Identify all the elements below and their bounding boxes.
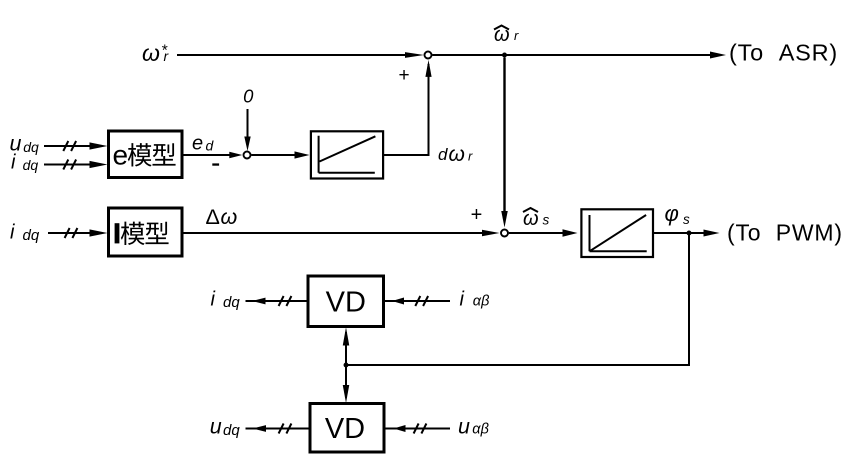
block e-model	[109, 131, 183, 178]
svg-text:ω: ω	[494, 24, 510, 46]
svg-text:ω: ω	[221, 205, 238, 229]
svg-text:φ: φ	[665, 201, 679, 226]
svg-text:VD: VD	[325, 413, 365, 445]
junction dot phi_s	[687, 231, 692, 236]
node omega_r_hat junction dot	[502, 53, 507, 58]
svg-text:i: i	[10, 222, 15, 244]
label omega_s_hat	[523, 208, 550, 230]
svg-text:s: s	[683, 212, 690, 227]
svg-text:s: s	[543, 213, 550, 228]
svg-text:αβ: αβ	[472, 422, 489, 438]
feedback wire phi_s down and left	[346, 233, 689, 365]
wire i_dq into e-model with bus slashes	[44, 160, 108, 170]
svg-text:u: u	[210, 414, 222, 438]
block F1 ramp/integrator	[311, 131, 383, 178]
wire u_alphabeta into VD2 with bus slashes	[384, 424, 450, 434]
svg-text:ω: ω	[523, 208, 539, 230]
svg-text:dq: dq	[223, 422, 240, 439]
wire I-model to summing junction S3	[182, 230, 500, 236]
svg-text:e: e	[192, 133, 203, 155]
node omega_r* label	[142, 40, 170, 66]
junction dot feedback split	[344, 363, 349, 368]
svg-text:(To ASR): (To ASR)	[729, 40, 838, 66]
minus sign at S2	[212, 163, 219, 165]
svg-text:Δ: Δ	[206, 205, 220, 229]
label d omega_r	[438, 143, 473, 166]
svg-text:i: i	[11, 152, 16, 174]
summing junction S3	[501, 230, 508, 237]
block F2 ramp/integrator	[581, 209, 653, 257]
wire VD2 output left to u_dq with bus slashes	[246, 424, 311, 434]
svg-text:ω: ω	[449, 143, 465, 166]
label e_d	[192, 133, 215, 155]
svg-text:i: i	[460, 289, 465, 311]
summing junction S1	[425, 52, 432, 59]
svg-text:αβ: αβ	[473, 293, 490, 309]
svg-text:+: +	[398, 65, 409, 86]
wire i_alphabeta into VD1 with bus slashes	[384, 296, 451, 306]
wire S3 to integrator block F2	[509, 229, 578, 237]
label i_dq	[11, 152, 38, 174]
summing junction S2	[244, 152, 251, 159]
svg-text:dq: dq	[223, 294, 240, 311]
label Delta omega	[206, 205, 238, 229]
svg-text:VD: VD	[326, 287, 366, 319]
wire e-model to summing junction S2	[182, 152, 242, 158]
label u_alphabeta	[458, 414, 489, 438]
wire i_dq into I-model with bus slashes	[48, 228, 108, 238]
svg-text:dq: dq	[23, 227, 40, 244]
block I-model	[109, 208, 183, 256]
wire omega_r* to summing junction S1	[177, 52, 424, 58]
wire S1 to (To ASR)	[432, 52, 726, 59]
block VD2	[310, 404, 384, 453]
wire omega_r_hat down to summing junction S3	[501, 58, 508, 228]
svg-text:*: *	[162, 43, 168, 60]
wire 0 down into S2	[244, 109, 250, 151]
svg-text:dq: dq	[23, 139, 39, 155]
wire F2 to (To PWM)	[654, 230, 720, 237]
svg-text:dq: dq	[23, 157, 39, 173]
svg-text:+: +	[471, 204, 483, 226]
wire feedback up into VD1	[343, 327, 350, 365]
label i_dq output	[211, 289, 241, 312]
svg-text:i: i	[211, 289, 216, 311]
label u_dq output	[210, 414, 241, 439]
svg-text:0: 0	[243, 85, 254, 106]
svg-text:(To PWM): (To PWM)	[727, 220, 843, 246]
block VD1	[308, 276, 384, 327]
svg-text:r: r	[514, 28, 519, 43]
label i_alphabeta	[460, 289, 490, 311]
wire VD1 output left to i_dq with bus slashes	[246, 296, 309, 306]
svg-text:d: d	[206, 138, 215, 154]
svg-text:ω: ω	[142, 40, 160, 66]
label i_dq row2	[10, 222, 40, 245]
svg-text:d: d	[438, 145, 448, 164]
svg-text:u: u	[458, 414, 470, 438]
svg-text:e: e	[113, 140, 129, 171]
label u_dq	[10, 132, 39, 156]
label omega_r_hat	[494, 24, 519, 46]
label phi_s	[665, 201, 691, 227]
wire F1 output up into S1	[383, 60, 432, 155]
wire u_dq into e-model with bus slashes	[44, 141, 108, 151]
wire feedback down into VD2	[343, 365, 350, 403]
wire S2 to integrator block F1	[251, 151, 309, 158]
svg-text:r: r	[468, 149, 473, 164]
